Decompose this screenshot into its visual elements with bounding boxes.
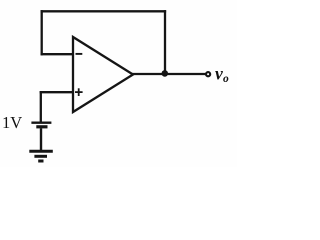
wire battery positive vertical xyxy=(40,91,42,122)
svg-text:o: o xyxy=(223,73,229,85)
wire battery to ground xyxy=(40,128,42,150)
wire feedback left vertical xyxy=(41,10,43,55)
op-amp minus pin label xyxy=(76,53,83,55)
wire feedback right vertical xyxy=(164,10,166,72)
node output junction xyxy=(162,70,169,77)
svg-text:v: v xyxy=(215,63,223,83)
wire output xyxy=(132,73,206,75)
svg-text:1V: 1V xyxy=(2,113,22,132)
op-amp plus pin label xyxy=(75,88,83,96)
battery V1 plate long xyxy=(31,121,51,123)
battery V1 plate short xyxy=(36,125,47,128)
ground xyxy=(29,151,53,161)
wire noninverting input horizontal xyxy=(40,91,73,93)
terminal vo open circle xyxy=(206,72,210,76)
wire inverting input xyxy=(41,53,73,55)
op-amp U1 xyxy=(73,37,133,112)
wire feedback top horizontal xyxy=(41,10,167,12)
